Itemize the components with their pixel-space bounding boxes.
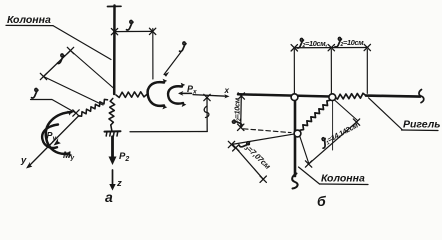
column (fig a)	[113, 6, 116, 95]
beam end break tick	[419, 90, 424, 103]
z axis arrow	[112, 170, 114, 185]
left vertical dimension l2	[240, 96, 243, 128]
force Px arrow	[180, 92, 192, 94]
svg-text:Mу: Mу	[63, 150, 75, 162]
svg-text:Px: Px	[187, 84, 197, 96]
tick on beam at x=207	[204, 94, 210, 100]
svg-text:3=7,07см: 3=7,07см	[243, 143, 273, 172]
column top cap	[108, 5, 122, 7]
extension lines	[293, 50, 295, 94]
vertical line below beam x=207	[206, 98, 208, 132]
leader from Колонна to column	[53, 26, 111, 60]
y axis line	[29, 116, 79, 166]
dimension l (top, column to ext line)	[114, 30, 153, 32]
column bottom break	[292, 174, 297, 189]
dimension l3 line	[236, 148, 264, 180]
wire: diagonal zigzag member	[300, 100, 330, 130]
wire: diagonal zigzag (y direction stub)	[79, 99, 108, 116]
leader ell (right, to moment arc)	[180, 42, 186, 52]
thin line node3 to left tick	[232, 134, 295, 145]
extension line x=153	[152, 29, 154, 80]
label l2=10cm (first)	[297, 38, 327, 49]
extension node3 to l1 dim	[300, 136, 309, 163]
top dimension line	[294, 47, 368, 49]
extension line from tick to joint	[44, 77, 104, 106]
extension node2 to l1 dim	[335, 100, 358, 121]
x axis line	[193, 95, 226, 97]
hinge node 2	[329, 94, 336, 101]
svg-text:2=10см: 2=10см	[233, 97, 243, 122]
ground support (hatched)	[105, 130, 121, 132]
small s-hook on that line	[204, 106, 209, 118]
leader ell (left)	[32, 88, 38, 98]
beam right straight part	[366, 96, 420, 97]
svg-text:P2: P2	[119, 151, 129, 163]
svg-text:z: z	[116, 178, 122, 189]
force P2 arrow	[111, 137, 114, 158]
moment arc inner	[168, 86, 183, 103]
beam (rigel) left straight part	[238, 94, 335, 96]
svg-text:Pу: Pу	[47, 131, 57, 143]
moment arc inner (Py cut)	[42, 125, 58, 148]
moment arc My outer	[46, 112, 72, 154]
svg-text:а: а	[105, 189, 113, 205]
svg-text:1=14,142см: 1=14,142см	[324, 120, 361, 146]
svg-text:Колонна: Колонна	[7, 14, 51, 26]
dashed line to node 3	[244, 129, 292, 133]
svg-text:Колонна: Колонна	[321, 173, 365, 185]
column (fig b)	[294, 101, 297, 177]
svg-text:2=10см: 2=10см	[340, 38, 365, 48]
rotated label l2=10cm	[232, 97, 242, 126]
horizontal line y=132	[130, 131, 207, 133]
dimension l1 line	[308, 122, 357, 165]
extension line from tick to column	[71, 51, 115, 89]
hinge node 3	[294, 130, 301, 137]
svg-text:x: x	[224, 86, 230, 95]
wire: vertical zigzag below joint	[109, 99, 115, 126]
svg-text:у: у	[20, 155, 27, 166]
moment arc Mx outer	[148, 82, 164, 106]
svg-text:Ригель: Ригель	[403, 119, 441, 131]
wire: beam zigzag part	[335, 93, 367, 99]
label l1=14,142cm rotated	[319, 120, 361, 149]
wire: horizontal zigzag beam stub	[116, 92, 147, 98]
label l2=10cm (second)	[335, 37, 364, 48]
svg-text:2=10см,: 2=10см,	[302, 39, 328, 49]
svg-text:б: б	[317, 193, 326, 208]
thin vertical from node2 down	[332, 101, 334, 151]
force Py arrowhead on axis	[54, 138, 61, 145]
label l3=7,07cm rotated	[239, 139, 273, 172]
diagonal dimension l (upper-left)	[44, 51, 71, 77]
hinge node 1	[291, 94, 298, 101]
